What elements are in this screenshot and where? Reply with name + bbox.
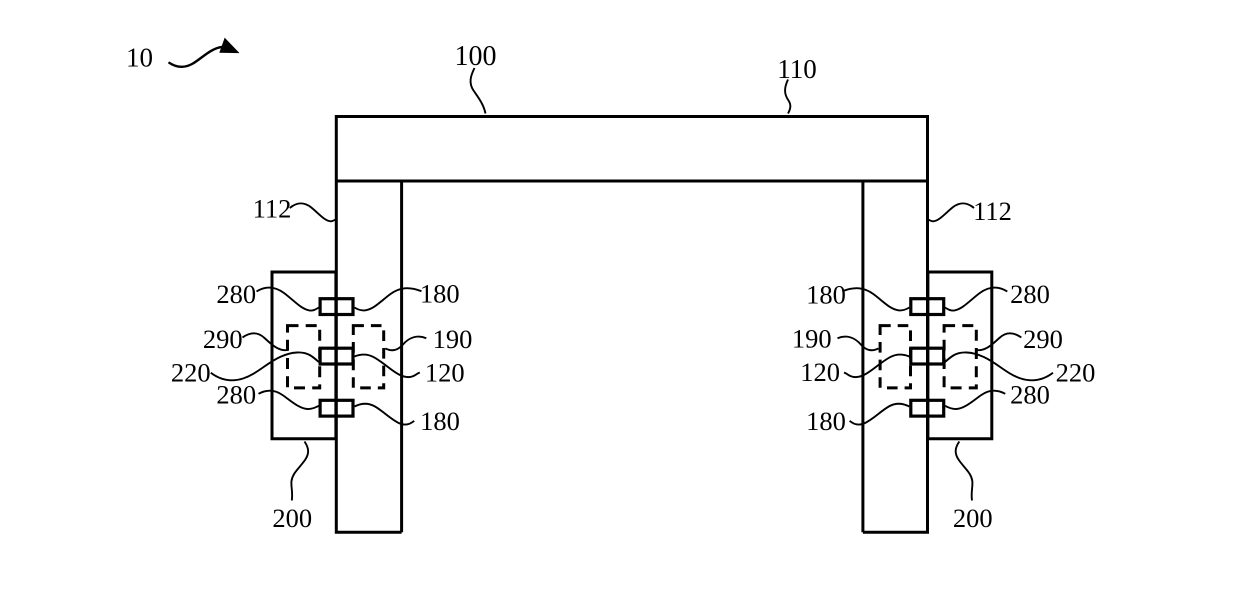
- leader 180 top (right leg): [842, 288, 909, 310]
- svg-text:280: 280: [216, 380, 256, 410]
- fastener 180 top rect (left leg): [320, 299, 353, 315]
- leader 280 bottom-left: [259, 391, 319, 409]
- svg-text:110: 110: [777, 54, 817, 84]
- svg-text:112: 112: [973, 196, 1012, 226]
- leader 290 right: [976, 333, 1021, 350]
- left leg 112 inner edge: [400, 181, 403, 532]
- leader 280 top-left: [257, 288, 319, 311]
- svg-text:180: 180: [806, 406, 846, 436]
- svg-text:280: 280: [1010, 380, 1050, 410]
- svg-text:200: 200: [272, 503, 312, 533]
- arrow 10 head: [220, 39, 238, 53]
- svg-text:290: 290: [203, 324, 243, 354]
- fastener 190-120 middle rect (left leg): [320, 348, 353, 364]
- dashed region 220 (left leg, inner): [353, 326, 383, 388]
- module 200 right box: [928, 272, 992, 439]
- leader 112 right: [928, 203, 975, 221]
- leader 180 bottom (right leg): [850, 404, 910, 425]
- svg-text:280: 280: [216, 279, 256, 309]
- fastener 180 bottom rect (right leg): [911, 400, 944, 416]
- svg-text:180: 180: [806, 280, 846, 310]
- dashed region 290 (left leg, outer): [288, 326, 320, 388]
- leader 120 (right leg): [844, 355, 909, 378]
- leader 180 top (left leg): [355, 288, 422, 310]
- fastener 180 top rect (right leg): [911, 299, 944, 315]
- leader 190 (left leg): [385, 337, 426, 351]
- svg-text:180: 180: [420, 279, 460, 309]
- bar 100 bottom edge: [336, 180, 927, 183]
- svg-text:180: 180: [420, 406, 460, 436]
- leader 290 left: [243, 333, 288, 350]
- svg-text:10: 10: [126, 43, 153, 73]
- leader 280 top-right: [945, 288, 1007, 311]
- svg-text:290: 290: [1023, 324, 1063, 354]
- svg-text:190: 190: [792, 324, 832, 354]
- svg-text:100: 100: [455, 41, 497, 72]
- leader 112 left: [290, 203, 337, 221]
- svg-text:112: 112: [253, 194, 292, 224]
- right leg 112 inner edge: [861, 181, 864, 532]
- dashed region 220 (right leg, inner): [880, 326, 910, 388]
- svg-text:200: 200: [953, 503, 993, 533]
- leader 110: [785, 80, 790, 114]
- dashed region 290 (right leg, outer): [944, 326, 976, 388]
- arrow 10 curve: [169, 47, 223, 67]
- svg-text:120: 120: [425, 358, 465, 388]
- fastener 190-120 middle rect (right leg): [911, 348, 944, 364]
- frame 110 outer outline (top bar and outer leg edges): [336, 117, 927, 533]
- svg-text:280: 280: [1010, 279, 1050, 309]
- leader 220 right: [945, 352, 1053, 380]
- leader 190 (right leg): [838, 337, 879, 351]
- svg-text:120: 120: [800, 357, 840, 387]
- leader 180 bottom (left leg): [355, 404, 415, 425]
- leader 200 right: [956, 442, 973, 501]
- svg-text:220: 220: [1056, 358, 1096, 388]
- module 200 left box: [272, 272, 336, 439]
- leader 200 left: [291, 442, 308, 501]
- leader 100: [471, 68, 486, 114]
- svg-text:190: 190: [433, 324, 473, 354]
- leader 120 (left leg): [355, 355, 420, 378]
- leader 220 left: [211, 352, 319, 380]
- svg-text:220: 220: [171, 358, 211, 388]
- leader 280 bottom-right: [945, 391, 1005, 409]
- fastener 180 bottom rect (left leg): [320, 400, 353, 416]
